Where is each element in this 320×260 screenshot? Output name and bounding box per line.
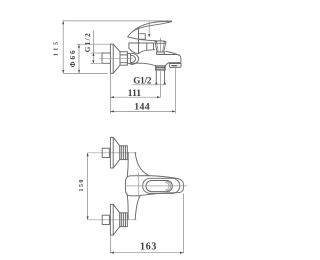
svg-text:G1/2: G1/2	[84, 32, 92, 52]
top escutcheon	[110, 137, 113, 168]
stem pipe	[102, 53, 110, 63]
outlet tube	[156, 70, 164, 81]
svg-text:115: 115	[53, 39, 60, 56]
dim 163	[110, 252, 183, 254]
aerator	[169, 64, 181, 68]
ext line top (handle top)	[63, 20, 172, 22]
neck bottom	[126, 195, 129, 220]
ext 163 right	[182, 193, 184, 253]
top cone	[113, 137, 120, 168]
diverter knob	[155, 40, 166, 43]
handle lever	[128, 21, 172, 36]
collar	[127, 54, 130, 64]
cone	[113, 44, 120, 73]
bottom escutcheon	[110, 204, 113, 235]
dim 115 vertical line	[62, 21, 64, 74]
bottom cone	[113, 204, 120, 235]
dim 111	[110, 96, 160, 98]
body bottom edge	[131, 63, 156, 66]
handle oval outer	[143, 178, 180, 193]
svg-text:163: 163	[140, 241, 157, 252]
svg-text:144: 144	[134, 102, 150, 113]
outlet centerline ext	[159, 71, 161, 97]
escutcheon (side)	[110, 44, 113, 73]
top union stem	[102, 148, 109, 157]
ext line 144 right	[174, 68, 176, 113]
neck top	[126, 152, 129, 176]
shower outlet collar	[156, 66, 165, 70]
body top edge	[138, 50, 154, 54]
axis centerline	[99, 58, 133, 60]
ext 163 left	[109, 235, 111, 253]
centerline top union	[88, 152, 137, 154]
centerline horizontal	[125, 185, 187, 187]
spout outline	[158, 55, 181, 63]
dim 150	[87, 153, 89, 220]
handle step	[139, 34, 146, 40]
top nut	[120, 146, 128, 160]
svg-text:Φ66: Φ66	[69, 49, 77, 68]
cartridge housing	[129, 43, 154, 50]
svg-text:150: 150	[78, 178, 85, 191]
svg-text:G1/2: G1/2	[133, 76, 152, 86]
dim phi66 line	[78, 44, 80, 73]
handle oval inner	[146, 181, 172, 192]
centerline vertical (cartridge)	[138, 172, 140, 199]
ext line left (wall plane)	[109, 73, 111, 113]
cap curve	[129, 48, 139, 53]
bottom union stem	[102, 215, 109, 224]
dim 144	[110, 110, 175, 112]
bottom nut	[120, 213, 128, 227]
ext line phi66 top	[77, 43, 111, 45]
small arrow on handle	[148, 21, 150, 34]
body shoulder to spout	[166, 51, 178, 54]
nested arcs	[166, 181, 171, 191]
dim G1/2 wall: line + small ext lines	[92, 31, 94, 64]
spout-to-outlet joint	[165, 63, 168, 66]
ext line bottom (escutcheon bottom)	[63, 72, 107, 74]
hex nut (side)	[120, 52, 127, 65]
centerline bottom union	[88, 219, 137, 221]
body outline	[126, 176, 131, 196]
svg-text:111: 111	[128, 88, 142, 99]
ball joint arcs	[131, 53, 139, 64]
